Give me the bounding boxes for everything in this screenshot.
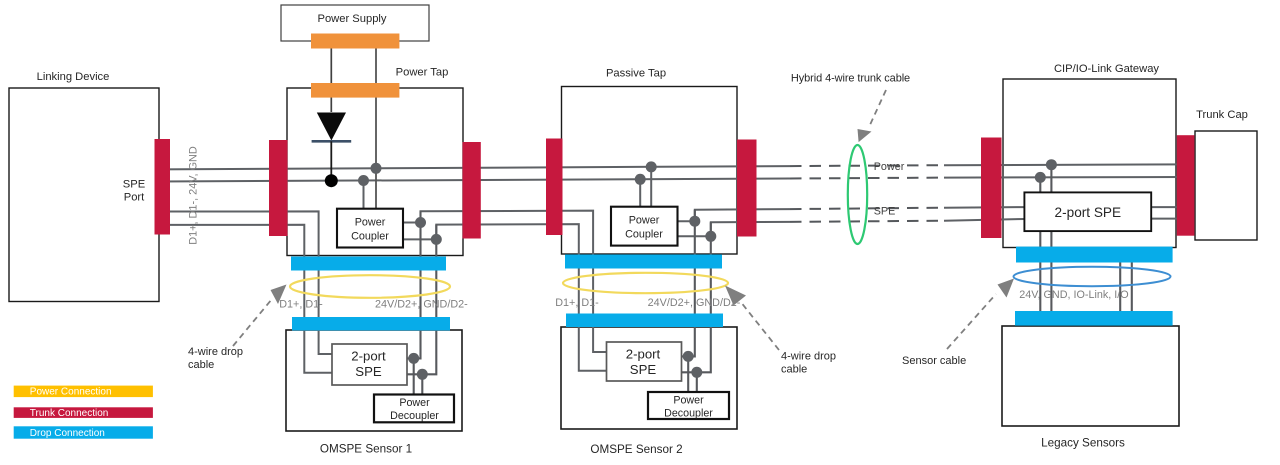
wire trunk power2 solid left: [158, 179, 790, 182]
svg-text:Passive Tap: Passive Tap: [606, 68, 666, 80]
red trunk connector linking device: [155, 139, 171, 235]
wire decoupler1 lead a: [413, 358, 415, 394]
box OMSPE Sensor 1: [286, 330, 462, 431]
svg-text:cable: cable: [188, 359, 214, 371]
ellipse hybrid trunk green: [848, 145, 867, 244]
junction dot tap2 out b: [705, 231, 716, 242]
wire trunk spe1 segB tap1 to tap2: [421, 211, 607, 352]
svg-text:Sensor cable: Sensor cable: [902, 355, 966, 367]
wire trunk spe1 segC solid right: [944, 206, 1024, 209]
wire power coupler2 out bottom: [678, 235, 711, 237]
svg-text:SPE: SPE: [123, 179, 145, 191]
wire trunk power1 dashed: [790, 164, 944, 167]
svg-text:OMSPE Sensor 2: OMSPE Sensor 2: [590, 443, 682, 456]
junction dot gateway wire2: [1035, 172, 1046, 183]
box Power Tap: [287, 88, 463, 256]
svg-text:Linking Device: Linking Device: [37, 71, 110, 83]
wire power coupler2 input right: [650, 166, 652, 206]
wire power supply left lead: [330, 48, 332, 113]
svg-text:OMSPE Sensor 1: OMSPE Sensor 1: [320, 443, 412, 456]
svg-text:Hybrid 4-wire trunk cable: Hybrid 4-wire trunk cable: [791, 73, 910, 85]
orange power bar lower: [311, 83, 399, 98]
junction dot tap2 coupler wire1: [646, 161, 657, 172]
svg-text:2-port SPE: 2-port SPE: [1055, 205, 1122, 220]
junction dot tap1 coupler wire2: [358, 175, 369, 186]
svg-text:4-wire drop: 4-wire drop: [188, 346, 243, 358]
svg-text:SPE: SPE: [630, 362, 657, 377]
red trunk connector gateway right: [1177, 135, 1195, 236]
box Legacy Sensors: [1002, 326, 1179, 426]
blue drop connector sensor1: [292, 317, 450, 331]
svg-text:Power Tap: Power Tap: [396, 66, 449, 78]
wire trunk spe1 segC dashed: [790, 208, 944, 209]
junction dot sensor1 a: [408, 353, 419, 364]
svg-text:cable: cable: [781, 364, 807, 376]
svg-text:Drop Connection: Drop Connection: [30, 428, 105, 439]
svg-text:2-port: 2-port: [626, 347, 661, 362]
junction dot tap2 out a: [689, 216, 700, 227]
wire power coupler1 input left: [363, 180, 365, 209]
red trunk connector power tap right: [463, 142, 481, 239]
junction dot tap1 coupler wire1: [371, 163, 382, 174]
svg-text:Power Connection: Power Connection: [30, 387, 112, 398]
junction dot gateway wire1: [1046, 159, 1057, 170]
svg-text:Power: Power: [399, 397, 430, 409]
diode D1 anode-cathode: [317, 113, 346, 141]
box 2-port SPE sensor2: [607, 342, 682, 381]
blue drop connector tap1: [291, 257, 446, 271]
wire drop1 right vertical a: [407, 211, 421, 358]
callout arrow 4-wire drop cable 1: [233, 299, 272, 346]
ellipse sensor cable blue: [1014, 267, 1171, 286]
box CIP/IO-Link Gateway: [1003, 79, 1176, 248]
svg-text:D1+, D1-: D1+, D1-: [279, 299, 323, 311]
svg-text:Power: Power: [673, 394, 704, 406]
blue drop connector gateway: [1016, 247, 1173, 263]
svg-text:Decoupler: Decoupler: [390, 410, 439, 422]
box Power Supply: [281, 5, 429, 41]
wire drop2 right vertical b: [682, 222, 711, 372]
legend trunk connection: [14, 407, 153, 418]
svg-text:Power: Power: [629, 215, 660, 227]
wire gateway IO-Link drop: [1119, 250, 1121, 325]
box Power Coupler U1: [337, 209, 403, 248]
svg-text:Decoupler: Decoupler: [664, 408, 713, 420]
wire drop2 right vertical a: [682, 210, 695, 357]
svg-text:Power: Power: [355, 217, 386, 229]
svg-text:CIP/IO-Link Gateway: CIP/IO-Link Gateway: [1054, 63, 1159, 75]
wire gateway 24V drop: [1039, 177, 1041, 325]
wire trunk spe2 segC solid right: [944, 219, 1024, 221]
wire diode to trunk power2: [330, 141, 332, 180]
junction dot tap1 out b: [431, 234, 442, 245]
junction dot sensor1 b: [417, 369, 428, 380]
svg-text:24V/D2+, GND/D2-: 24V/D2+, GND/D2-: [648, 297, 741, 309]
svg-text:SPE: SPE: [874, 206, 896, 218]
svg-text:24V, GND, IO-Link, I/O: 24V, GND, IO-Link, I/O: [1019, 289, 1128, 301]
wire gateway spe1 to trunk cap: [1151, 206, 1186, 208]
wire trunk spe2 segC dashed: [790, 221, 944, 222]
svg-text:Port: Port: [124, 192, 145, 204]
blue drop connector tap2: [565, 255, 722, 269]
wire power coupler1 out top: [403, 222, 421, 224]
svg-text:Legacy Sensors: Legacy Sensors: [1041, 437, 1125, 450]
svg-text:Coupler: Coupler: [351, 231, 389, 243]
svg-text:Trunk Connection: Trunk Connection: [30, 408, 109, 419]
wire decoupler2 lead a: [687, 356, 689, 392]
svg-text:Power Supply: Power Supply: [317, 13, 386, 25]
wire trunk spe1 segC solid: [695, 209, 790, 221]
svg-text:Trunk Cap: Trunk Cap: [1196, 109, 1248, 121]
wire drop1 right vertical b: [407, 225, 436, 375]
junction dot tap1 out a: [415, 217, 426, 228]
ellipse drop cable 2 yellow: [563, 273, 728, 293]
box 2-port SPE gateway: [1024, 192, 1151, 231]
svg-text:2-port: 2-port: [351, 349, 386, 364]
junction dot sensor2 a: [683, 351, 694, 362]
wire decoupler1 lead b: [421, 374, 423, 394]
junction dot tap2 coupler wire2: [635, 174, 646, 185]
wire gateway GND drop: [1050, 164, 1052, 325]
callout arrow 4-wire drop cable 2: [740, 301, 779, 350]
svg-text:Coupler: Coupler: [625, 229, 663, 241]
wire gateway IO drop: [1131, 250, 1133, 325]
blue drop connector legacy sensors: [1015, 311, 1173, 326]
wire trunk power1 solid left: [158, 166, 790, 169]
blue drop connector sensor2: [566, 314, 723, 328]
wire trunk spe2 segC solid: [711, 222, 790, 236]
box Power Decoupler 2: [648, 392, 729, 419]
wire gateway spe2 to trunk cap: [1151, 218, 1186, 220]
box Trunk Cap: [1195, 131, 1257, 240]
ellipse drop cable 1 yellow: [290, 275, 450, 298]
wire trunk power1 solid right: [944, 163, 1186, 166]
box OMSPE Sensor 2: [561, 327, 737, 429]
box Power Decoupler 1: [374, 395, 454, 423]
svg-text:4-wire drop: 4-wire drop: [781, 351, 836, 363]
red trunk connector gateway left: [981, 138, 1002, 239]
svg-text:D1+, D1-: D1+, D1-: [555, 297, 599, 309]
wire trunk power2 dashed: [790, 177, 944, 180]
svg-text:SPE: SPE: [355, 364, 382, 379]
junction dot sensor2 b: [691, 367, 702, 378]
wire trunk power2 solid right: [944, 176, 1186, 179]
wire trunk spe2 segA: [158, 225, 332, 373]
wire power coupler1 out bottom: [403, 238, 436, 240]
legend drop connection: [14, 426, 153, 438]
wire power coupler2 out top: [678, 220, 695, 222]
orange power bar upper: [311, 34, 399, 49]
callout arrow hybrid trunk cable: [869, 90, 886, 127]
red trunk connector passive tap right: [737, 140, 757, 237]
diode cathode bar: [312, 140, 352, 143]
box Power Coupler U2: [611, 207, 678, 246]
box Linking Device: [9, 88, 159, 302]
red trunk connector power tap left: [269, 140, 288, 236]
svg-text:D1+, D1-, 24V, GND: D1+, D1-, 24V, GND: [188, 146, 200, 245]
callout arrow sensor cable: [947, 294, 996, 349]
red trunk connector passive tap left: [546, 139, 563, 236]
wire power coupler2 input left: [639, 179, 641, 207]
wire decoupler2 lead b: [696, 372, 698, 392]
box 2-port SPE sensor1: [332, 344, 407, 385]
wire trunk spe2 segB tap1 to tap2: [436, 224, 606, 371]
svg-text:24V/D2+, GND/D2-: 24V/D2+, GND/D2-: [375, 299, 468, 311]
legend power connection: [14, 386, 153, 398]
wire power supply right lead: [375, 48, 377, 209]
svg-text:Power: Power: [874, 161, 905, 173]
wire trunk spe1 segA: [158, 211, 332, 354]
box Passive Tap: [562, 87, 738, 255]
junction node diode black: [325, 174, 338, 187]
